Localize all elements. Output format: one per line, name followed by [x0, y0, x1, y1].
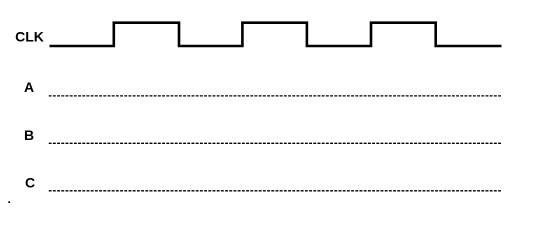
wire dashed line B — [49, 142, 502, 144]
stray ink mark bottom-left — [8, 201, 10, 203]
wire dashed line C — [49, 190, 502, 192]
clock waveform CLK — [50, 23, 502, 46]
svg-text:C: C — [25, 174, 35, 190]
svg-text:B: B — [24, 127, 34, 143]
wire dashed line A — [49, 95, 502, 97]
svg-text:CLK: CLK — [15, 29, 44, 45]
svg-text:A: A — [24, 79, 34, 95]
